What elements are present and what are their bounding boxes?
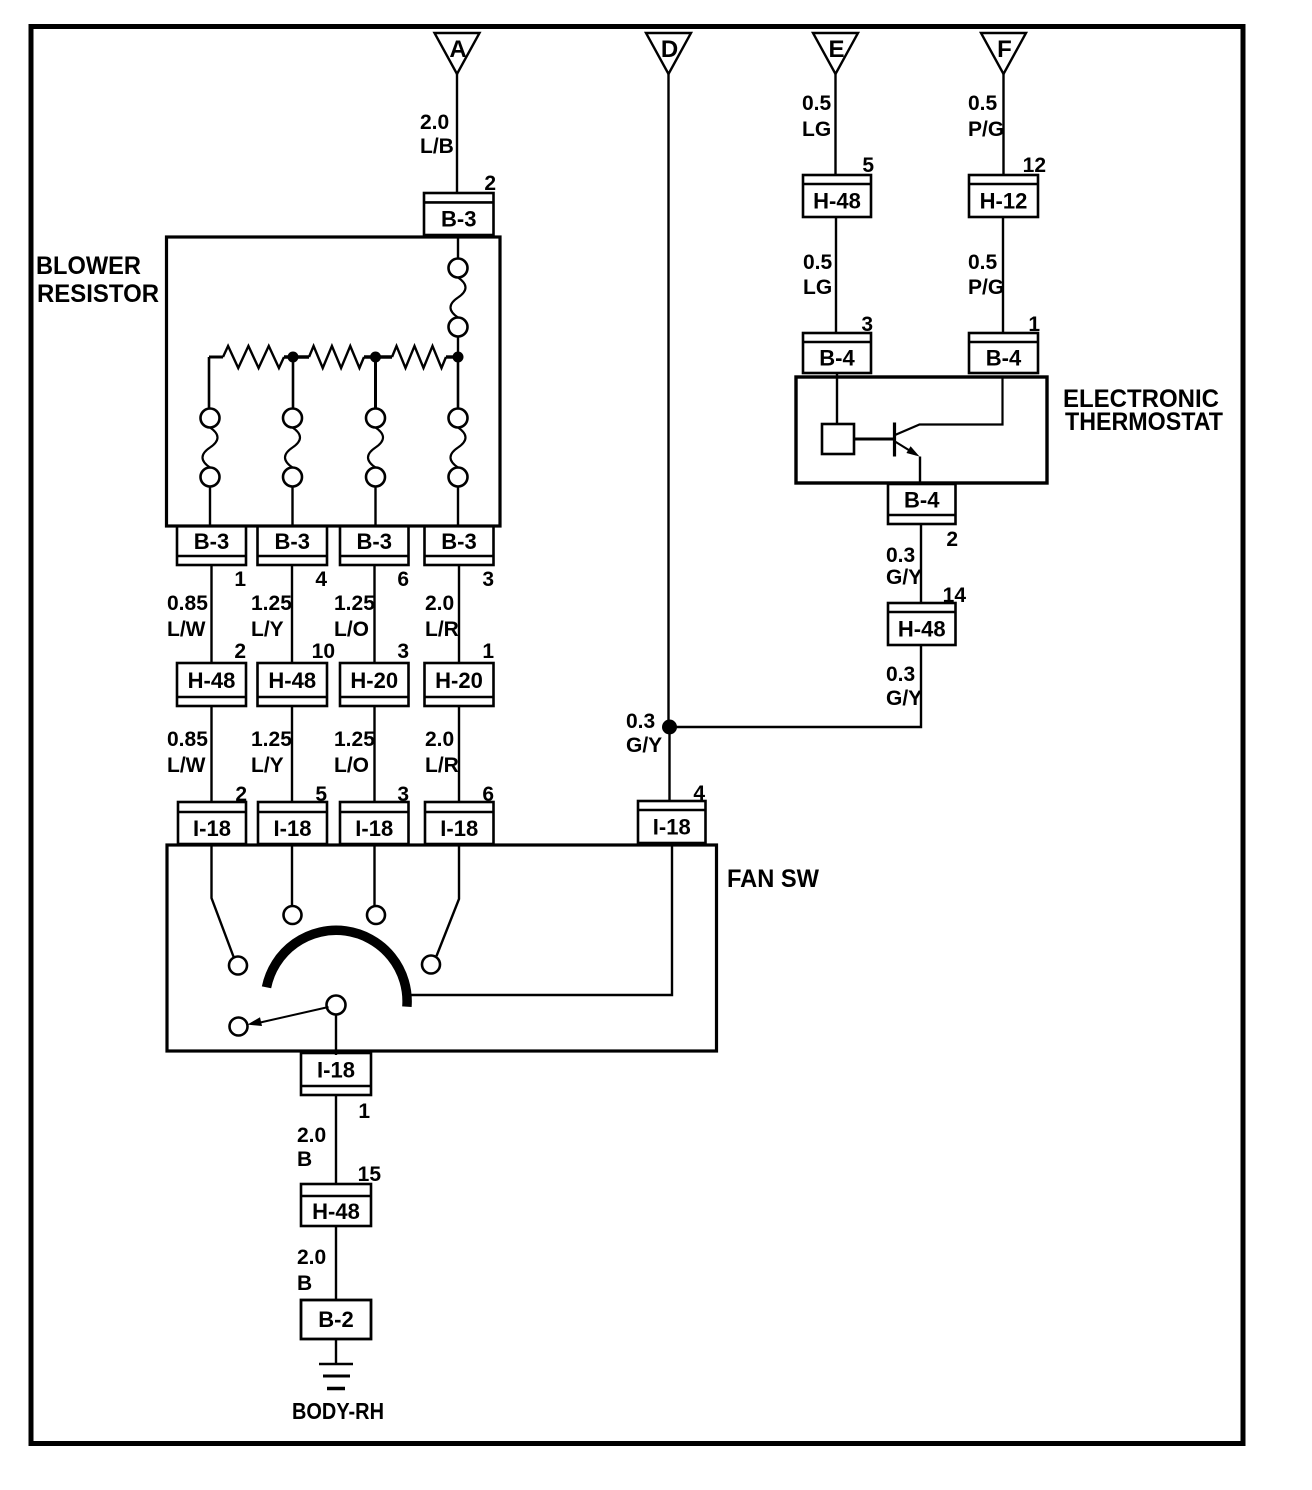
wire col3 to B-3 [374,487,376,527]
svg-text:12: 12 [1023,154,1046,177]
wire B-3.1 to H-48 [210,565,212,663]
wire switch contact 4 [437,845,460,956]
wire H-48 to I-18 col2 [291,706,293,802]
svg-text:A: A [449,36,466,63]
svg-text:I-18: I-18 [653,814,691,839]
wire drop col1 [208,357,211,409]
connector I-18 pin 5 [258,802,327,844]
connector H-48 pin 2 [177,663,246,706]
wire H-48 to B-4 (E) [835,217,837,333]
connector I-18 pin 2 [178,802,246,844]
svg-text:BODY-RH: BODY-RH [292,1398,384,1424]
wire label 0.5 LG (2) [803,251,833,299]
connector arrow D [646,33,691,74]
connector B-3 pin 4 [258,526,328,565]
svg-text:LG: LG [803,276,832,299]
wire switch contact 2 [291,845,293,906]
wire switch contact 3 [373,845,375,906]
connector I-18 pin 6 [425,802,494,844]
switch contact 4 [422,956,440,974]
svg-text:G/Y: G/Y [886,687,922,710]
svg-text:1.25: 1.25 [251,728,292,751]
svg-text:1: 1 [234,568,246,591]
resistor R2 [309,346,364,368]
svg-text:L/R: L/R [425,618,459,641]
connector B-3 (blower resistor feed) [424,193,494,235]
wiper arm arrow [247,1007,328,1026]
svg-text:2: 2 [946,528,958,551]
wire label 1.25 L/Y (2) [251,728,292,777]
svg-text:B: B [297,1148,312,1171]
wire B-3.3 to H-20 [458,565,460,663]
svg-text:5: 5 [862,154,874,177]
label BLOWER RESISTOR [36,252,159,308]
svg-text:H-48: H-48 [898,616,946,641]
wire B-3.6 to H-20 [373,565,375,663]
svg-text:0.5: 0.5 [803,251,833,274]
svg-text:0.5: 0.5 [968,92,998,115]
svg-text:0.3: 0.3 [886,663,915,686]
svg-text:B-3: B-3 [441,529,476,554]
svg-text:2.0: 2.0 [425,728,454,751]
svg-text:2.0: 2.0 [297,1124,326,1147]
svg-text:F: F [997,36,1012,63]
wire label 0.85 L/W [167,592,208,641]
wire label 0.5 P/G (2) [968,251,1004,299]
wire H-12 to B-4 (F) [1002,217,1004,333]
wire label 2.0 L/B [420,111,454,158]
svg-text:E: E [828,36,844,63]
connector H-48 pin 15 [301,1184,371,1226]
svg-text:H-48: H-48 [813,188,861,213]
switch contact 1 [229,957,247,975]
wire drop col3 [374,357,377,409]
svg-text:B-2: B-2 [318,1307,353,1332]
connector B-4 pin 1 [969,333,1038,373]
svg-text:0.3: 0.3 [626,710,655,733]
wire coil to resistor chain [457,337,459,358]
junction D / thermostat [662,720,677,735]
wire label 2.0 B (1) [297,1124,326,1171]
connector H-20 pin 3 [340,663,409,706]
svg-text:L/R: L/R [425,754,459,777]
svg-text:THERMOSTAT: THERMOSTAT [1065,408,1223,436]
connector arrow A [435,33,480,74]
connector B-3 pin 6 [340,526,409,565]
connector H-12 pin 12 [969,175,1038,217]
svg-text:1.25: 1.25 [251,592,292,615]
svg-text:I-18: I-18 [355,816,393,841]
wire label 2.0 L/R (2) [425,728,459,777]
coil L4 [449,409,468,487]
wire junction to I-18 pin 4 [668,727,670,801]
wire wiper to I-18 pin 1 [335,1015,337,1056]
wire label 0.3 G/Y (1) [886,544,922,589]
connector arrow E [813,33,858,74]
svg-text:I-18: I-18 [317,1057,355,1082]
switch contact OFF [230,1018,248,1036]
resistor R1 [223,346,284,368]
fan switch box FAN SW [167,845,717,1051]
thermostat sensor element [822,424,854,454]
svg-text:I-18: I-18 [193,816,231,841]
wire label 0.5 LG [802,92,832,141]
svg-text:1.25: 1.25 [334,728,375,751]
svg-text:L/O: L/O [334,754,369,777]
svg-text:P/G: P/G [968,118,1004,141]
svg-text:I-18: I-18 [440,816,478,841]
svg-text:6: 6 [397,568,409,591]
connector B-2 [301,1300,371,1339]
svg-text:0.85: 0.85 [167,592,208,615]
connector H-48 pin 5 [803,175,871,217]
wire H-48.15 to B-2 [335,1226,337,1300]
coil L2 [283,409,302,487]
svg-text:H-48: H-48 [188,668,236,693]
svg-text:4: 4 [315,568,327,591]
wire col1 to B-3 [209,487,211,527]
ground BODY-RH [319,1364,353,1389]
wire B-4.2 to H-48.14 [920,524,922,603]
svg-text:2.0: 2.0 [420,111,449,134]
wire B-2 to ground [335,1339,337,1364]
svg-text:B-4: B-4 [986,345,1022,370]
coil L-in (top) [449,259,468,337]
wire D vertical [667,74,669,727]
wire B-4.3 to sensor [836,373,838,424]
svg-text:LG: LG [802,118,831,141]
svg-text:L/W: L/W [167,754,206,777]
connector H-48 pin 14 [888,603,956,645]
wire A to B-3 [456,74,458,193]
svg-text:H-48: H-48 [312,1199,360,1224]
svg-text:G/Y: G/Y [626,734,662,757]
connector H-48 pin 10 [258,663,328,706]
wire E to H-48 [834,74,836,175]
wire drop col2 [292,357,295,409]
connector arrow F [981,33,1026,74]
label ELECTRONIC THERMOSTAT [1063,385,1223,436]
wire switch contact 1 [212,845,235,958]
wire drop col4 [457,357,460,409]
wiper pivot [327,996,346,1015]
wire label 0.5 P/G [968,92,1004,141]
svg-text:BLOWER: BLOWER [36,252,141,280]
svg-text:1: 1 [358,1100,370,1123]
svg-text:0.85: 0.85 [167,728,208,751]
wire R2-R3 link [364,355,392,358]
wire H-20 to I-18 col3 [373,706,375,802]
junction node 3 [453,352,464,363]
wire H-20 to I-18 col4 [458,706,460,802]
svg-text:1: 1 [482,640,494,663]
wire sensor to transistor base [854,438,893,441]
svg-text:0.5: 0.5 [802,92,832,115]
svg-text:RESISTOR: RESISTOR [37,280,159,308]
connector B-4 pin 3 [803,333,871,373]
wire H-48 to I-18 col1 [210,706,212,802]
wire label 0.85 L/W (2) [167,728,208,777]
svg-text:B-3: B-3 [194,529,229,554]
wire label 2.0 B (2) [297,1246,326,1295]
svg-text:B: B [297,1272,312,1295]
wire label 1.25 L/Y [251,592,292,641]
coil L1 [201,409,220,487]
junction node 2 [370,352,381,363]
svg-text:H-20: H-20 [350,668,398,693]
wire label 0.3 G/Y (D) [626,710,662,757]
switch contact 2 [284,906,302,924]
resistor R3 [392,346,446,368]
svg-text:L/O: L/O [334,618,369,641]
svg-text:B-3: B-3 [357,529,392,554]
svg-text:B-4: B-4 [819,345,855,370]
svg-text:L/Y: L/Y [251,754,284,777]
svg-text:2: 2 [234,640,246,663]
svg-text:I-18: I-18 [274,816,312,841]
svg-text:B-3: B-3 [441,207,476,232]
wire D input to rotor [410,845,672,995]
junction node 1 [288,352,299,363]
wire F to H-12 [1002,74,1004,175]
wire label 2.0 L/R [425,592,459,641]
svg-text:L/W: L/W [167,618,206,641]
connector H-20 pin 1 [425,663,494,706]
svg-text:D: D [661,36,678,63]
svg-text:G/Y: G/Y [886,566,922,589]
coil L3 [366,409,385,487]
connector B-4 pin 2 [888,484,956,524]
svg-text:1.25: 1.25 [334,592,375,615]
svg-text:H-12: H-12 [980,188,1028,213]
svg-text:2: 2 [484,172,496,195]
svg-text:3: 3 [397,640,409,663]
svg-text:15: 15 [358,1163,382,1186]
connector B-3 pin 1 [177,526,246,565]
svg-text:3: 3 [482,568,494,591]
svg-text:0.5: 0.5 [968,251,998,274]
svg-text:2.0: 2.0 [297,1246,326,1269]
connector I-18 pin 1 [301,1053,371,1095]
svg-text:2.0: 2.0 [425,592,454,615]
svg-text:10: 10 [312,640,335,663]
wire emitter to B-4 pin 2 [919,457,921,485]
connector B-3 pin 3 [425,526,494,565]
connector I-18 pin 4 [638,801,706,843]
switch contact 3 [367,906,385,924]
wire H-48.14 to junction [670,645,922,727]
wire R3 to node 3 [446,355,458,358]
connector I-18 pin 3 [340,802,409,844]
wire left stub [209,356,223,359]
svg-text:B-4: B-4 [904,487,940,512]
electronic thermostat box [796,377,1047,483]
wire col2 to B-3 [291,487,293,527]
wire R1-R2 link [284,355,309,358]
svg-text:H-20: H-20 [435,668,483,693]
rotor arc [267,930,408,1006]
wire label 1.25 L/O (2) [334,728,375,777]
wire I-18.1 to H-48.15 [335,1095,337,1184]
wire label 0.3 G/Y (2) [886,663,922,710]
svg-text:FAN SW: FAN SW [727,865,819,893]
wire into blower resistor [457,235,459,259]
svg-text:P/G: P/G [968,276,1004,299]
wire label 1.25 L/O [334,592,375,641]
wire col4 to B-3 [457,487,459,527]
svg-text:L/B: L/B [420,135,454,158]
svg-text:L/Y: L/Y [251,618,284,641]
transistor Q1 [895,377,1003,457]
svg-text:0.3: 0.3 [886,544,915,567]
svg-text:B-3: B-3 [275,529,310,554]
svg-text:H-48: H-48 [268,668,316,693]
wire B-3.4 to H-48 [291,565,293,663]
blower resistor box [167,237,501,526]
